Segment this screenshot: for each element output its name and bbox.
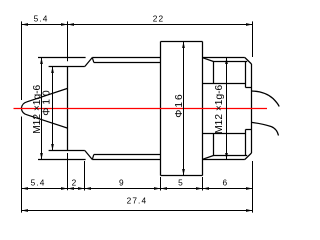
body outline bottom [92, 159, 160, 161]
flange right edge [202, 42, 204, 176]
arrow chain 9 left [85, 187, 92, 190]
body outline top [92, 57, 160, 59]
extension line right of nut, top [252, 21, 254, 57]
thread major line top (M12) [38, 57, 86, 59]
thread root line top (Φ10) [49, 66, 85, 68]
nut right chamfer diagonal bottom [245, 153, 252, 160]
cable bushing top edge [246, 87, 252, 89]
svg-text:22: 22 [153, 14, 164, 24]
arrow M12 right bottom [225, 153, 228, 160]
extension line at thread end, bottom [84, 161, 86, 191]
arrow Φ16 bottom [182, 169, 185, 176]
tip front face [67, 67, 69, 151]
cable lower line [252, 122, 279, 135]
arrow 22 right [246, 23, 253, 26]
flange bottom edge (Φ16) [161, 175, 203, 177]
arrow chain 2 right [78, 187, 85, 190]
hex flat boundary line bottom [203, 133, 246, 135]
cable bushing bottom edge [246, 129, 252, 131]
sensor tip lower ogive curve [21, 108, 67, 128]
thread major line bottom (M12) [38, 159, 86, 161]
arrow chain 5 left [161, 187, 168, 190]
extension line at tip apex, lower part [21, 117, 23, 213]
arrow M12 left top [40, 58, 43, 65]
flange left edge [160, 42, 162, 176]
nut chamfer inner line top [214, 61, 248, 63]
svg-text:27.4: 27.4 [127, 196, 148, 206]
arrow chain 5.4 left [22, 187, 29, 190]
red centerline [14, 108, 268, 110]
bushing right face [251, 64, 253, 153]
arrow 5.4 top right [61, 23, 68, 26]
arrow 27.4 right [246, 209, 253, 212]
nut top outline [203, 57, 245, 59]
body chamfer edge top-left [92, 58, 94, 63]
nut right chamfer diagonal top [245, 58, 252, 65]
svg-text:5.4: 5.4 [34, 14, 49, 24]
Φ16 dimension line [183, 42, 185, 176]
extension line at tip apex, upper part [21, 21, 23, 100]
svg-text:Φ16: Φ16 [174, 92, 185, 117]
chain dimension line (5.4 / 2 / 9 / 5 / 6) [22, 188, 253, 190]
hex flat boundary line top [203, 83, 246, 85]
arrow chain 6 right [246, 187, 253, 190]
nut chamfer inner line bottom [214, 155, 248, 157]
arrow M12 left bottom [40, 153, 43, 160]
extension line at front face, top [67, 21, 69, 61]
arrow chain 6 left [203, 187, 210, 190]
extension line right of nut, bottom [252, 161, 254, 213]
body thread root line top [94, 62, 161, 64]
arrow chain 5.4 right [61, 187, 68, 190]
arrow chain 2 left [68, 187, 75, 190]
M12 thread dimension line right [226, 58, 228, 160]
arrow Φ16 top [182, 42, 185, 49]
nut chamfer ring vertical top [245, 62, 247, 88]
arrow 22 left [68, 23, 75, 26]
thread runout diagonal top [85, 58, 93, 67]
body chamfer edge bottom-left [92, 155, 94, 160]
body thread root line bottom [94, 154, 161, 156]
extension line at flange left, bottom [160, 177, 162, 191]
arrow chain 5 right [196, 187, 203, 190]
nut chamfer ring vertical bottom [245, 130, 247, 156]
thread root line bottom (Φ10) [49, 150, 85, 152]
overall dimension line (27.4) [22, 210, 253, 212]
nut left chamfer diagonal bottom [203, 156, 214, 160]
nut hex face edge vertical, top band [213, 62, 215, 84]
thread runout diagonal bottom [85, 151, 93, 160]
M12 thread dimension line left [41, 58, 43, 160]
svg-text:5.4: 5.4 [31, 177, 46, 187]
flange top edge (Φ16) [161, 41, 203, 43]
arrow 27.4 left [22, 209, 29, 212]
nut bottom outline [203, 159, 245, 161]
svg-text:5: 5 [178, 177, 184, 187]
extension line at front face, bottom [67, 153, 69, 190]
svg-text:Φ10: Φ10 [41, 87, 52, 115]
Φ10 dimension line [52, 67, 54, 151]
svg-text:9: 9 [119, 177, 125, 187]
svg-text:M12 ×1g-6: M12 ×1g-6 [214, 84, 225, 133]
top dimension line (5.4 and 22) [22, 24, 253, 26]
svg-text:6: 6 [222, 177, 228, 187]
svg-text:2: 2 [72, 177, 78, 187]
cable upper line [252, 91, 280, 107]
arrow 5.4 top left [22, 23, 29, 26]
sensor tip upper ogive curve [21, 88, 67, 108]
arrow M12 right top [225, 58, 228, 65]
extension line at flange right, bottom [202, 177, 204, 191]
arrow Φ10 top [51, 67, 54, 74]
arrow chain 9 right [154, 187, 161, 190]
arrow Φ10 bottom [51, 144, 54, 151]
nut hex face edge vertical, bottom band [213, 134, 215, 156]
nut left chamfer diagonal top [203, 58, 214, 62]
